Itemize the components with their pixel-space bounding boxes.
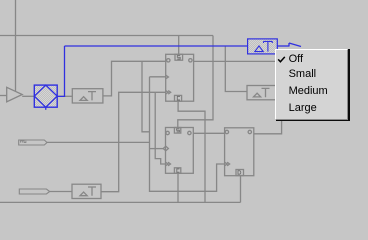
wire from top bus to FF1 S pin	[178, 36, 180, 55]
wire circuit input to buffer	[0, 95, 7, 97]
delay element U3 (blue selected)	[248, 39, 278, 54]
delay element U4 (partly behind menu)	[247, 86, 276, 100]
wire delay U5 output up to FF1 clock	[101, 92, 166, 191]
flip-flop FF1 pin labels	[177, 56, 180, 100]
wire FF1 D net branch	[142, 61, 150, 132]
flip-flop FF1	[166, 54, 194, 101]
delay element U5	[72, 184, 101, 198]
menu item Off	[289, 54, 303, 64]
menu shadow right (black)	[348, 49, 350, 121]
wire FF1 C output jog down	[178, 101, 205, 202]
source flag P2	[19, 189, 49, 194]
flip-flop FF2	[163, 128, 193, 174]
wire selector output to delay U2	[57, 95, 72, 97]
menu item Medium	[289, 86, 328, 96]
wire FF3 D pin to bottom bus	[240, 176, 242, 203]
flip-flop FF3 pin label	[238, 171, 241, 175]
wire clock flag P1 to node A	[47, 141, 150, 143]
wire FF2 C pin to bottom bus	[177, 173, 179, 202]
menu item Large	[289, 103, 317, 113]
wire delay U2 output to FF1 D input	[103, 61, 166, 96]
wire flag P2 to delay U5	[50, 191, 72, 193]
wire node A vertical distribution	[150, 77, 225, 192]
wire selected net drop to selector (blue)	[57, 46, 64, 96]
flip-flop FF2 pin labels	[177, 129, 180, 172]
switch S1 (blue)	[277, 43, 301, 47]
delay element U2	[72, 89, 103, 103]
flip-flop FF3	[225, 128, 254, 176]
selector component U6 (blue selected)	[34, 85, 57, 110]
wire node A to FF2 D pin	[150, 148, 164, 150]
clock source flag P1	[19, 140, 47, 145]
wire FF3 Q up behind menu	[254, 121, 282, 134]
wire selected net horizontal (blue)	[65, 45, 248, 47]
wire left vertical	[15, 0, 17, 91]
context menu	[275, 49, 348, 120]
wire from blue net down to delay U4 input	[225, 47, 247, 92]
wire buffer output to selector	[22, 95, 34, 97]
checkmark for Off	[277, 56, 287, 65]
wire FF1 Q output to right	[194, 60, 275, 62]
wire FF1 clock net to FF2 clock	[155, 92, 165, 164]
buffer amplifier U1	[7, 87, 23, 102]
wire node A to FF1 E pin	[150, 76, 166, 78]
wire from top bus to FF2 S pin	[178, 36, 213, 128]
wire FF2 Q to FF3 input	[193, 132, 224, 134]
menu item Small	[289, 69, 317, 79]
wire bottom bus	[0, 201, 241, 203]
wire top bus	[0, 35, 213, 37]
menu shadow bottom (black)	[276, 120, 349, 122]
